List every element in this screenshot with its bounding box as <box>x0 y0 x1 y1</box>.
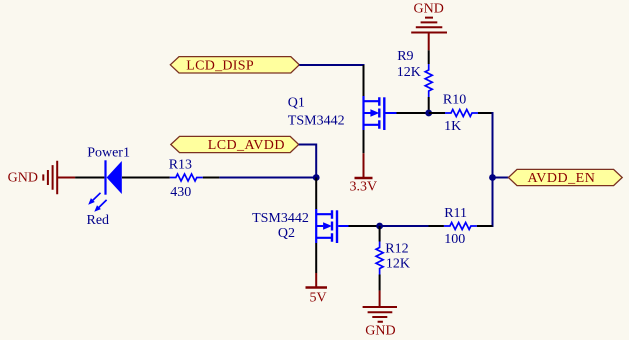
svg-text:LCD_AVDD: LCD_AVDD <box>208 138 285 153</box>
net label LCD_DISP <box>170 57 299 74</box>
LED Power1 Red <box>75 145 170 228</box>
ground GND (bottom) <box>363 291 397 339</box>
svg-text:R12: R12 <box>385 242 408 257</box>
transistor Q1 TSM3442 <box>288 65 429 153</box>
resistor R11 100 <box>429 206 493 247</box>
svg-text:Q2: Q2 <box>278 226 295 241</box>
wire right vertical bus <box>492 112 494 227</box>
net label LCD_AVDD <box>171 136 299 153</box>
wire LCD_DISP to Q1 drain <box>299 64 364 66</box>
junction R9/R10/Q1 gate <box>425 110 432 117</box>
svg-text:TSM3442: TSM3442 <box>252 211 309 226</box>
svg-text:GND: GND <box>414 2 444 17</box>
svg-text:AVDD_EN: AVDD_EN <box>528 171 596 186</box>
svg-text:LCD_DISP: LCD_DISP <box>186 58 254 73</box>
junction AVDD_EN <box>489 174 496 181</box>
svg-text:Q1: Q1 <box>288 96 305 111</box>
svg-text:R13: R13 <box>169 158 192 173</box>
resistor R9 12K <box>397 49 432 113</box>
svg-text:R10: R10 <box>443 93 466 108</box>
ground GND (left) <box>8 161 76 195</box>
svg-text:100: 100 <box>444 232 465 247</box>
ground GND (top right) <box>411 2 447 51</box>
wire junction to R11 <box>380 225 429 227</box>
svg-text:5V: 5V <box>310 291 327 306</box>
junction Q2 gate/R11/R12 <box>376 223 383 230</box>
svg-text:1K: 1K <box>444 119 461 134</box>
svg-text:430: 430 <box>170 185 191 200</box>
svg-text:12K: 12K <box>397 65 421 80</box>
resistor R12 12K <box>376 226 410 291</box>
svg-text:GND: GND <box>365 324 395 339</box>
wire LCD_AVDD to junction <box>299 145 317 178</box>
resistor R10 1K <box>429 93 493 135</box>
svg-text:12K: 12K <box>386 257 410 272</box>
svg-text:TSM3442: TSM3442 <box>288 113 345 128</box>
net label AVDD_EN <box>508 169 622 186</box>
svg-text:3.3V: 3.3V <box>350 180 378 195</box>
wire junction to AVDD_EN <box>493 177 509 179</box>
svg-text:R11: R11 <box>444 206 467 221</box>
wire R13 to junction <box>219 177 317 179</box>
junction LCD_AVDD/R13/Q2 <box>313 174 320 181</box>
resistor R13 430 <box>169 158 220 201</box>
svg-text:R9: R9 <box>397 49 413 64</box>
svg-text:Power1: Power1 <box>87 145 130 160</box>
svg-text:GND: GND <box>8 171 38 186</box>
transistor Q2 TSM3442 <box>252 178 380 274</box>
power 3.3V <box>350 153 378 194</box>
svg-text:Red: Red <box>87 213 110 228</box>
power 5V <box>306 273 328 306</box>
